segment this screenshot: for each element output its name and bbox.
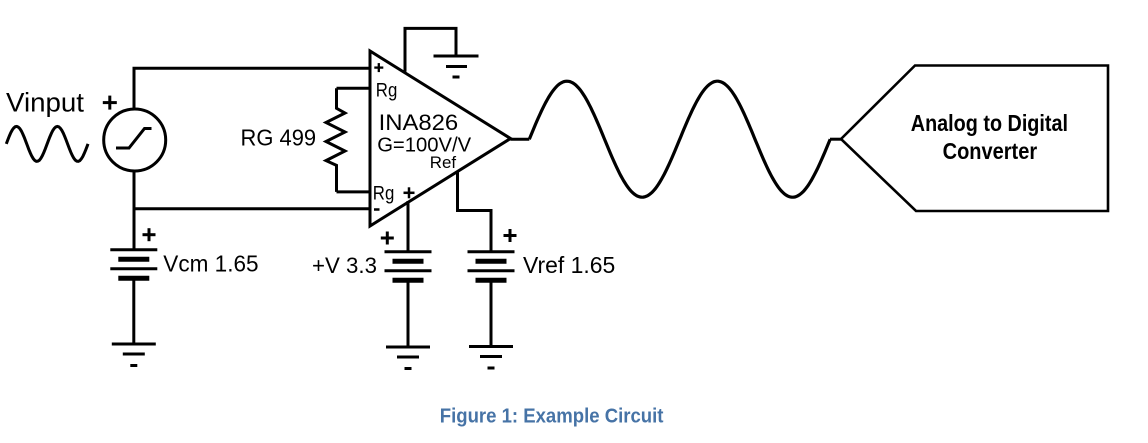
svg-text:RG 499: RG 499 (241, 124, 317, 150)
svg-text:+V 3.3: +V 3.3 (312, 253, 377, 278)
svg-text:Vinput: Vinput (6, 88, 85, 118)
svg-text:Converter: Converter (943, 138, 1038, 164)
svg-text:INA826: INA826 (379, 110, 459, 135)
svg-text:Analog to Digital: Analog to Digital (911, 110, 1068, 136)
svg-text:Figure 1: Example Circuit: Figure 1: Example Circuit (440, 406, 664, 428)
svg-text:G=100V/V: G=100V/V (377, 134, 471, 157)
svg-text:Rg: Rg (373, 183, 395, 204)
svg-text:Ref: Ref (430, 154, 457, 172)
svg-text:Vcm 1.65: Vcm 1.65 (163, 251, 258, 277)
svg-text:Vref 1.65: Vref 1.65 (523, 252, 615, 278)
svg-text:Rg: Rg (376, 81, 398, 102)
